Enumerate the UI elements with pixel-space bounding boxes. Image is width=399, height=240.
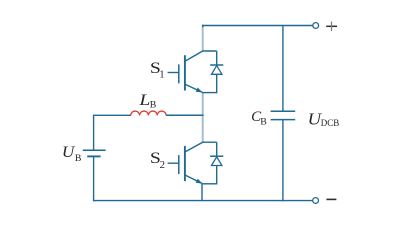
transistor S2 (IGBT) body bar: [184, 146, 186, 181]
transistor S2 (IGBT) gate bar: [178, 155, 180, 174]
antiparallel diode of S2 (IGBT) cathode lead: [216, 142, 218, 156]
transistor S1 (IGBT) body bar: [184, 55, 186, 90]
antiparallel diode of S1 (IGBT) triangle: [212, 66, 222, 75]
antiparallel diode of S2 (IGBT) anode lead: [216, 166, 218, 184]
antiparallel diode of S2 (IGBT) triangle: [212, 157, 222, 166]
wire inductor LB to node A: [166, 114, 204, 116]
transistor S2 (IGBT) emitter lead: [185, 175, 203, 184]
transistor S2 (IGBT) collector lead: [185, 142, 217, 152]
transistor S2 (IGBT) gate lead: [168, 162, 179, 164]
svg-text:B: B: [75, 153, 82, 164]
inductor LB coil: [131, 111, 166, 115]
plus sign label: [326, 25, 337, 27]
wire bottom rail (- bus): [93, 200, 313, 202]
svg-text:1: 1: [159, 68, 164, 80]
antiparallel diode of S2 (IGBT) cathode bar: [210, 155, 223, 157]
negative output terminal circle: [313, 198, 319, 204]
battery UB long plate: [83, 149, 106, 151]
wire stub top rail to S1 collector (light): [202, 26, 204, 51]
svg-text:U: U: [62, 144, 76, 161]
positive output terminal circle: [313, 23, 319, 29]
svg-text:DCB: DCB: [321, 118, 340, 128]
wire battery UB positive to inductor (left riser): [94, 115, 131, 150]
antiparallel diode of S1 (IGBT) anode lead: [216, 74, 218, 92]
capacitor CB bottom plate: [271, 119, 296, 121]
wire from S1 (IGBT) emitter to diode anode: [202, 92, 217, 94]
antiparallel diode of S1 (IGBT) cathode lead: [216, 51, 218, 65]
minus sign label: [326, 198, 336, 200]
transistor S1 (IGBT) emitter lead: [185, 84, 203, 92]
antiparallel diode of S1 (IGBT) cathode bar: [210, 64, 223, 66]
wire top rail to capacitor CB: [282, 26, 284, 112]
top rail corner above S1: [202, 25, 203, 27]
transistor S2 (IGBT) emitter arrowhead: [196, 179, 203, 184]
wire battery UB negative to bottom rail: [93, 156, 95, 201]
svg-text:2: 2: [160, 159, 165, 171]
capacitor CB top plate: [271, 110, 296, 112]
transistor S1 (IGBT) gate bar: [178, 64, 180, 83]
wire stub S1 emitter through node A to S2 collector (light): [202, 93, 204, 143]
svg-text:L: L: [138, 92, 150, 109]
wire capacitor CB to bottom rail: [282, 120, 284, 202]
wire top rail (+ bus): [202, 25, 313, 27]
svg-text:B: B: [260, 117, 267, 128]
transistor S1 (IGBT) emitter arrowhead: [196, 88, 203, 93]
wire from S2 (IGBT) emitter to diode anode: [202, 183, 217, 185]
transistor S1 (IGBT) collector lead: [185, 51, 217, 62]
battery UB short plate: [87, 155, 100, 157]
wire S2 emitter to bottom rail: [201, 184, 203, 201]
transistor S1 (IGBT) gate lead: [168, 72, 179, 74]
svg-text:B: B: [150, 100, 157, 111]
